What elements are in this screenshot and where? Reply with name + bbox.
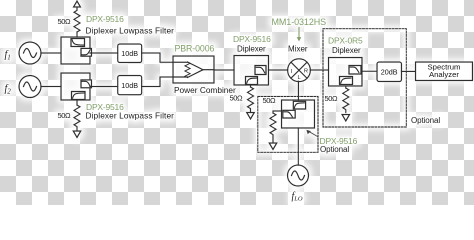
svg-text:10dB: 10dB [121, 81, 138, 90]
resistor R1 50ohm [74, 7, 80, 32]
resistor R3 50ohm [248, 87, 254, 112]
svg-text:10dB: 10dB [121, 49, 138, 58]
svg-text:MM1-0312HS: MM1-0312HS [272, 17, 327, 27]
svg-text:50Ω: 50Ω [58, 17, 72, 26]
power combiner U3 PBR-0006 [173, 56, 214, 83]
diplexer U7 DPX-9516 (lower) [282, 100, 315, 128]
termination arrow (open, down) [342, 115, 350, 122]
svg-text:50Ω: 50Ω [230, 93, 244, 102]
wire diplexer U7 left port to resistor R5 [273, 111, 282, 113]
resistor R2 50ohm [74, 105, 80, 130]
svg-text:Mixer: Mixer [288, 45, 308, 54]
attenuator A1 10dB [118, 44, 142, 63]
diplexer U6 DPX-0R5 [329, 58, 363, 87]
termination arrow (open, down) [247, 113, 255, 120]
source f2 (signal generator) [19, 76, 41, 98]
svg-text:Power Combiner: Power Combiner [174, 85, 236, 95]
wire diplexer U6 bottom port to resistor R4 [345, 86, 347, 88]
resistor R4 50ohm [343, 88, 349, 113]
resistor R5 50ohm [270, 113, 276, 143]
svg-text:50Ω: 50Ω [325, 94, 339, 103]
svg-text:Analyzer: Analyzer [429, 70, 459, 79]
wire attenuator A3 to spectrum analyzer [402, 70, 416, 72]
svg-text:Diplexer: Diplexer [237, 45, 266, 54]
svg-text:PBR-0006: PBR-0006 [175, 44, 215, 54]
wire attenuator A1 to combiner [142, 53, 173, 62]
svg-text:DPX-9516: DPX-9516 [86, 14, 124, 24]
wire attenuator A2 to combiner [142, 77, 173, 87]
svg-text:DPX-9516: DPX-9516 [233, 34, 271, 44]
wire f1 to diplexer U1 [41, 52, 61, 54]
wire diplexer U7 to source fLO [297, 128, 299, 165]
svg-text:L: L [297, 75, 300, 81]
svg-text:Optional: Optional [411, 116, 440, 125]
green pointer arrow to mixer [297, 28, 302, 42]
termination arrow (open, down) [269, 143, 277, 150]
svg-text:50Ω: 50Ω [263, 96, 277, 105]
svg-text:R: R [304, 69, 308, 75]
attenuator A2 10dB [118, 76, 142, 95]
wire diplexer U1 to attenuator A1 [90, 52, 118, 54]
diplexer U4 DPX-9516 (center) [234, 56, 269, 86]
svg-text:DPX-0R5: DPX-0R5 [328, 36, 363, 46]
wire combiner to diplexer U4 [214, 69, 234, 71]
wire diplexer U6 to attenuator A3 [362, 70, 377, 72]
termination arrow (open, down) [73, 131, 81, 138]
mixer U5 MM1-0312HS [288, 59, 311, 82]
wire mixer L port down to diplexer U7 [297, 81, 299, 100]
wire diplexer U4 bottom port to resistor R3 [250, 85, 252, 87]
wire diplexer U2 bottom port to resistor R2 [76, 100, 78, 105]
svg-text:Diplexer Lowpass Filter: Diplexer Lowpass Filter [86, 111, 175, 121]
wire mixer R port to diplexer U6 [310, 69, 328, 71]
wire diplexer U1 top port to resistor R1 [76, 32, 78, 37]
wire f2 to diplexer U2 [41, 86, 61, 88]
svg-text:Diplexer Lowpass Filter: Diplexer Lowpass Filter [86, 26, 175, 36]
svg-text:20dB: 20dB [381, 67, 398, 76]
dashed optional box (DPX-0R5 section) [323, 29, 406, 127]
source fLO (local oscillator) [288, 165, 309, 186]
diplexer U2 DPX-9516 (bottom-left) [61, 73, 92, 100]
attenuator A3 20dB [377, 62, 402, 82]
source f1 (signal generator) [19, 42, 41, 64]
spectrum analyzer [416, 62, 473, 81]
svg-text:Diplexer: Diplexer [332, 46, 361, 55]
svg-text:50Ω: 50Ω [58, 111, 72, 120]
svg-text:Optional: Optional [320, 145, 349, 154]
pointer arrow to diplexer U7 [306, 130, 317, 137]
wire diplexer U4 to mixer [269, 69, 288, 71]
wire diplexer U2 to attenuator A2 [90, 86, 118, 88]
diplexer U1 DPX-9516 (top-left) [61, 37, 92, 64]
dashed optional box (lower DPX-9516 section) [258, 96, 318, 152]
termination arrow (open, up) [74, 1, 81, 7]
